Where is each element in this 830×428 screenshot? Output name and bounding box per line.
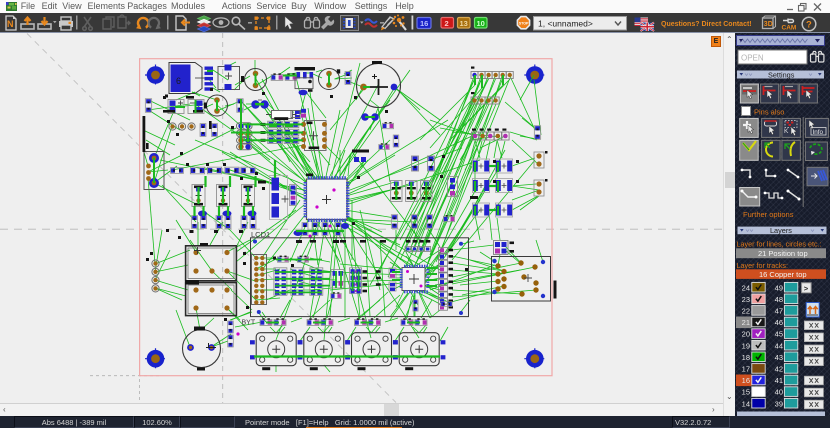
tool row 2 [740, 118, 829, 137]
svg-text:CAM: CAM [782, 25, 797, 32]
IC U2 [301, 121, 327, 151]
save/import down icon [38, 17, 57, 29]
LCD1 mid column [331, 268, 381, 299]
resistor row [171, 163, 256, 180]
component/chip button (pressed) [341, 16, 364, 31]
svg-text:16: 16 [420, 19, 428, 28]
svg-text:Questions? Direct Contact!: Questions? Direct Contact! [661, 21, 752, 28]
resistor R20 [534, 126, 540, 140]
binoculars icon white [811, 52, 824, 63]
flag icons [635, 18, 655, 32]
trimmer pads row [167, 120, 195, 136]
diode D2 [406, 181, 417, 202]
vertical scrollbar [723, 33, 736, 416]
capacitor C1 [241, 69, 267, 91]
pen icon [381, 17, 394, 31]
pads cluster under U3 [294, 223, 350, 243]
pins also checkbox [742, 107, 751, 116]
layer chip 10 green [475, 18, 488, 29]
svg-text:Layers: Layers [770, 226, 792, 235]
component U6 outline [295, 78, 313, 95]
svg-text:Layer for lines, circles etc.:: Layer for lines, circles etc.: [737, 240, 822, 249]
resistor R8 [345, 72, 351, 85]
layer chip 16 blue [417, 18, 431, 29]
svg-text:21: 21 [742, 318, 750, 327]
svg-text:47: 47 [775, 307, 783, 316]
svg-text:>: > [804, 284, 809, 293]
LCD1 green rows [275, 260, 359, 293]
pads under transistor 2 [214, 211, 232, 234]
resistor RB3 [426, 215, 432, 229]
connector K1 body [169, 63, 205, 94]
resistor pair near C1 [271, 73, 297, 80]
svg-text:23: 23 [742, 295, 750, 304]
main canvas with PCB [0, 33, 723, 403]
undo (orange) [138, 18, 148, 28]
component IC2 pads [186, 96, 204, 114]
origin cross dashed at board corner [90, 355, 160, 403]
svg-text:20: 20 [742, 330, 750, 339]
settings header [737, 70, 824, 79]
svg-text:13: 13 [460, 19, 468, 28]
svg-text:16 Copper top: 16 Copper top [759, 270, 807, 279]
LCD1 resistor rows [273, 256, 323, 296]
LCD1 right pad column [439, 248, 454, 311]
module M1 top [186, 243, 237, 281]
copy (disabled) [103, 17, 114, 29]
transistor Q2 [217, 185, 230, 207]
svg-text:Pins also: Pins also [754, 108, 784, 117]
svg-text:16: 16 [742, 376, 750, 385]
layer list [736, 282, 825, 416]
pad row X3 [472, 129, 510, 141]
stop sign [517, 17, 529, 29]
svg-text:10: 10 [477, 19, 485, 28]
search box OPEN [738, 50, 807, 64]
separator [167, 16, 169, 30]
mounting hole BR [524, 348, 544, 368]
header block A 2x4 [231, 123, 252, 150]
connector K1 pads [205, 67, 214, 91]
3D icon [763, 16, 776, 29]
project combobox [534, 17, 627, 31]
separator [412, 16, 414, 30]
resistor grid 3x2 [261, 121, 299, 143]
module M1 bottom [185, 280, 236, 316]
connector K2 right [492, 257, 551, 302]
guide crosshair horizontal dashed line [0, 228, 723, 230]
resistor R11 [209, 121, 217, 136]
IC U3 QFP [290, 174, 350, 223]
svg-text:18: 18 [742, 353, 750, 362]
svg-text:17: 17 [742, 365, 750, 374]
svg-text:1, <unnamed>: 1, <unnamed> [538, 19, 593, 29]
resistor R1 left [145, 99, 151, 113]
svg-text:48: 48 [775, 295, 783, 304]
resistor RB1 [391, 215, 397, 229]
horizontal scrollbar [0, 403, 723, 417]
scattered silk marks [165, 88, 468, 309]
green track segments [195, 71, 499, 357]
mounting hole TR [524, 65, 544, 85]
svg-text:Settings: Settings [768, 70, 795, 79]
extra ratsnest air wires [148, 60, 538, 347]
tool row 1: four red track buttons [740, 84, 817, 103]
import component icon [176, 16, 190, 30]
extra ratsnest batch2 [143, 63, 541, 372]
tool row 3 [740, 140, 828, 160]
status bar [0, 416, 830, 428]
svg-text:41: 41 [775, 376, 783, 385]
svg-text:19: 19 [742, 341, 750, 350]
eye icon [213, 18, 229, 27]
CAM icon [782, 19, 797, 32]
toolbar [0, 13, 830, 33]
resistor R10 [200, 124, 206, 137]
tool row 4 [741, 167, 828, 186]
layer stack icon [198, 16, 211, 32]
separator [76, 16, 78, 30]
route waves icon [365, 19, 377, 27]
svg-text:BYT: BYT [242, 320, 256, 327]
extra green track segments [154, 74, 503, 323]
svg-text:2: 2 [445, 19, 449, 28]
svg-text:15: 15 [742, 388, 750, 397]
svg-text:K: K [784, 128, 789, 135]
svg-text:14: 14 [742, 399, 750, 408]
mounting hole BL [145, 348, 165, 368]
diode D1 [391, 181, 402, 202]
LCD1 top pads [405, 240, 431, 252]
guide crosshair vertical dashed line [222, 33, 224, 403]
capacitor C5 [183, 327, 221, 371]
resistor RB2 [411, 215, 417, 229]
component IC1 pads [163, 96, 184, 114]
svg-text:Layer for tracks:: Layer for tracks: [737, 261, 789, 270]
resistor R22 [534, 179, 548, 196]
inductor L1 [266, 109, 306, 120]
svg-text:Info: Info [813, 129, 824, 136]
top dropdown bar [736, 35, 825, 46]
zoom selection dashed rect [255, 17, 271, 30]
binoculars [305, 18, 320, 29]
BYT row resistors [260, 318, 427, 325]
resistor R9 [237, 99, 243, 113]
jumper pads [251, 100, 268, 109]
silk bar left edge [143, 116, 146, 152]
header block C [494, 241, 515, 255]
diode D3 [421, 181, 432, 202]
pads under transistor 3 [239, 211, 257, 234]
silk bar right [554, 281, 557, 299]
capacitor C3 big [357, 61, 401, 108]
svg-text:24: 24 [742, 283, 750, 292]
mounting hole TL [145, 65, 165, 85]
capacitor C2 [319, 69, 341, 90]
svg-text:N: N [7, 19, 14, 29]
pointer arrow [285, 17, 293, 30]
svg-text:46: 46 [775, 318, 783, 327]
LCD1 header [252, 255, 267, 305]
tool row 5 [740, 188, 801, 207]
IC U4 QFP in LCD1 [400, 265, 430, 294]
capacitor C4 [204, 95, 228, 116]
silk bits left of C7 [258, 181, 266, 191]
new file icon [6, 16, 16, 30]
LCD1 vias [253, 240, 463, 316]
regulator U5 [218, 65, 240, 91]
header J1 pads [471, 67, 513, 79]
resistor R21 [534, 151, 548, 168]
window controls [786, 2, 828, 12]
svg-text:OPEN: OPEN [741, 54, 764, 63]
svg-text:Further options: Further options [743, 210, 794, 219]
LCD1 outline [251, 238, 469, 317]
paste (disabled) [118, 15, 130, 28]
magic wand icon [393, 15, 407, 31]
svg-text:?: ? [806, 20, 812, 31]
svg-text:3D: 3D [764, 21, 773, 28]
transistor Q1 [192, 185, 205, 207]
guide diagonal dashed line [27, 34, 396, 403]
svg-text:39: 39 [775, 399, 783, 408]
svg-text:21 Position top: 21 Position top [758, 249, 808, 258]
layer chip 13 brown [458, 18, 471, 29]
right sidebar [735, 33, 830, 416]
board outline [140, 59, 552, 376]
zoom magnifier [232, 17, 245, 29]
wrench [321, 16, 334, 30]
svg-text:49: 49 [775, 283, 783, 292]
pads left of U4 [389, 268, 396, 291]
push button SW1 [250, 333, 302, 371]
svg-text:45: 45 [775, 330, 783, 339]
svg-text:40: 40 [775, 388, 783, 397]
transistor Q3 [242, 185, 255, 207]
silk bar with pads [295, 67, 316, 79]
push button SW4 [393, 333, 445, 371]
push button SW3 [345, 333, 397, 371]
redo (gray) [149, 18, 159, 28]
ratsnest air wires [144, 70, 543, 347]
header J2 pads [471, 92, 499, 104]
svg-text:44: 44 [775, 341, 783, 350]
separator [276, 16, 278, 30]
push button SW2 [298, 333, 350, 371]
capacitor C7 blue column [270, 176, 289, 220]
save/export up icon [21, 18, 34, 29]
help icon [802, 17, 816, 31]
pad column X2 [146, 252, 159, 292]
parts cluster R30 [224, 318, 240, 347]
menu bar [0, 0, 830, 13]
scissors (disabled) [83, 17, 93, 30]
layers header [738, 226, 827, 235]
svg-text:43: 43 [775, 353, 783, 362]
connector X1 left [144, 143, 164, 190]
printer icon [59, 17, 73, 30]
parts right of U3 [352, 113, 458, 222]
svg-text:42: 42 [775, 365, 783, 374]
svg-text:STOP: STOP [519, 22, 529, 26]
LCD1 bottom-right parts [413, 300, 452, 311]
E tab on canvas edge [711, 36, 721, 47]
svg-text:6: 6 [176, 76, 181, 86]
smd grid [470, 159, 519, 217]
layer chip 2 red [441, 18, 454, 29]
pads under transistor 1 [190, 211, 208, 234]
svg-text:22: 22 [742, 307, 750, 316]
